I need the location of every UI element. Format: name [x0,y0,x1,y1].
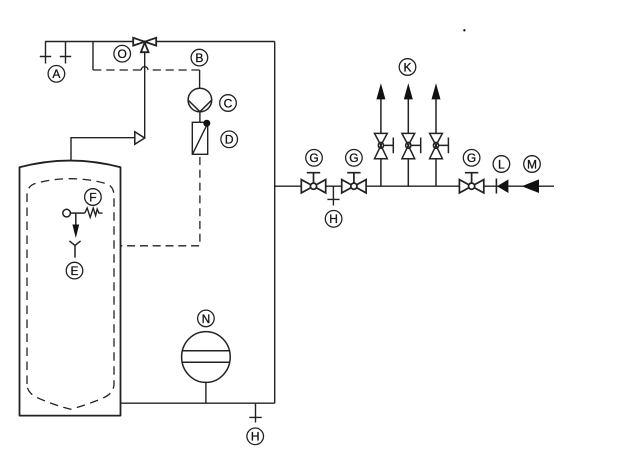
shut-off valve G2 [342,173,366,193]
svg-text:H: H [251,430,260,444]
label H (pipe) [325,211,342,228]
wire: vertical pipe from valve O down to tank feed arrow [144,52,146,138]
label H (bottom) [247,428,264,445]
svg-text:G: G [349,151,358,165]
svg-text:A: A [52,67,60,81]
check valve L [496,179,508,194]
thermostat F (circle, capillary zigzag, arrow) [63,208,103,238]
drain H (between G valves) [327,186,339,205]
label G1 [306,150,323,167]
svg-text:F: F [89,190,96,204]
label D [221,131,238,148]
drain H (bottom) [249,403,261,422]
pump C [188,88,212,112]
svg-text:L: L [498,157,505,171]
label K [399,59,416,76]
svg-text:N: N [202,312,211,326]
speck artifact [463,29,465,31]
temperature controller D (rect with diagonal and dot) [192,120,210,155]
svg-text:O: O [118,47,127,61]
wire: stub from top pipe down to dashed control line [92,42,94,71]
3-way mixing valve O [133,38,156,52]
label G2 [346,150,363,167]
wire: pipe from tank top up and right [71,138,135,161]
svg-text:H: H [329,212,338,226]
label M [524,156,541,173]
svg-text:E: E [70,264,78,278]
storage tank outline [20,161,121,416]
label E [66,262,83,279]
shut-off valve G1 [301,173,325,193]
wire: corner down to pump [199,70,201,88]
drain fitting A (two stubs with ticks) [40,42,71,64]
wire: top cold-water pipe left segment [45,41,133,43]
label C [220,95,237,112]
label A [48,66,65,83]
expansion vessel N [182,332,231,404]
label L [493,156,510,173]
svg-text:B: B [195,51,203,65]
riser 2 (valve + outlet arrow) [402,83,421,186]
wire: pump to sensor D [199,112,201,123]
label B [191,49,208,66]
tank inner liner (dashed) [27,179,114,410]
wire: main distribution pipe [275,185,554,187]
svg-text:C: C [224,96,233,110]
svg-text:M: M [527,157,537,171]
label F [85,189,102,206]
dashed control line B (with hop over vertical pipe) [93,67,200,70]
label N [198,310,215,327]
label G3 [463,150,480,167]
dashed capillary line from D into tank [121,157,200,246]
wire: box bottom pipe [121,402,275,404]
label O [114,45,131,62]
riser 1 (valve + outlet arrow) [375,83,394,186]
flow direction arrow M [522,179,539,193]
svg-text:G: G [467,151,476,165]
svg-text:K: K [403,60,411,74]
riser 3 (valve + outlet arrow) [430,83,449,186]
wire: top pipe from valve O to box corner [156,41,274,43]
feed check arrow into vertical pipe [135,132,145,145]
sensor E (Y symbol) [69,241,80,258]
svg-text:G: G [309,151,318,165]
svg-text:D: D [225,133,234,147]
wire: box right vertical pipe [274,42,276,404]
shut-off valve G3 [459,173,483,193]
